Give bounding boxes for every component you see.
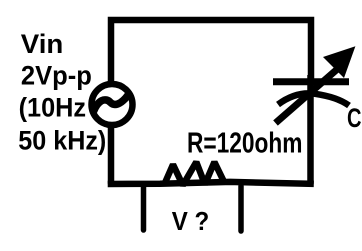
probe wire right — [238, 186, 244, 231]
wire: left drop from source to bottom rail — [108, 127, 115, 184]
probe wire left — [141, 186, 147, 230]
wire: right drop from capacitor to bottom rail — [307, 75, 314, 184]
wire: bottom rail — [108, 182, 314, 184]
svg-text:(10Hz: (10Hz — [19, 93, 87, 123]
AC source U1 circle — [92, 84, 133, 125]
AC source sine squiggle — [94, 95, 129, 112]
capacitor C straight plate — [273, 78, 349, 85]
svg-text:2Vp-p: 2Vp-p — [21, 60, 92, 90]
svg-text:Vin: Vin — [21, 29, 64, 59]
capacitor C curved plate — [278, 93, 349, 105]
svg-text:R=120ohm: R=120ohm — [187, 127, 303, 159]
variable capacitor arrow shaft — [276, 69, 339, 124]
svg-text:V ?: V ? — [172, 206, 210, 236]
svg-text:C: C — [347, 103, 362, 133]
resistor R zigzag — [164, 162, 224, 185]
wire: top side of loop with left and right corners — [111, 20, 311, 83]
svg-text:50 kHz): 50 kHz) — [18, 125, 106, 155]
variable capacitor arrowhead — [323, 46, 355, 78]
